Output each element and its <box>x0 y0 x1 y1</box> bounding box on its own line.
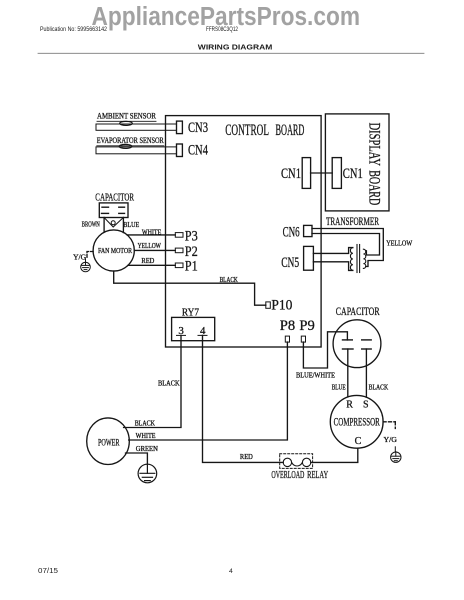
svg-text:CN3: CN3 <box>188 120 208 136</box>
wire brown capacitor to fan motor <box>103 218 105 232</box>
wire CN5 to transformer primary bottom <box>313 262 352 271</box>
svg-text:CN5: CN5 <box>281 255 299 271</box>
svg-text:S: S <box>363 400 369 411</box>
svg-text:CN1: CN1 <box>281 166 301 182</box>
svg-text:TRANSFORMER: TRANSFORMER <box>326 216 379 228</box>
connector CN6 <box>304 225 312 236</box>
svg-text:AMBIENT SENSOR: AMBIENT SENSOR <box>97 112 156 121</box>
relay RY7 <box>172 307 215 341</box>
svg-text:Y/G: Y/G <box>384 435 398 444</box>
svg-text:RED: RED <box>240 454 253 461</box>
svg-text:CN1: CN1 <box>343 166 363 182</box>
control board <box>166 116 322 347</box>
wire white power to P8 <box>129 342 288 440</box>
svg-text:P9: P9 <box>299 318 314 334</box>
compressor <box>330 395 383 448</box>
svg-text:BOARD: BOARD <box>276 122 305 139</box>
svg-text:Publication No: 5995663142: Publication No: 5995663142 <box>40 26 107 33</box>
evaporator sensor <box>96 136 177 154</box>
wire black power to relay pin 3 <box>124 335 181 427</box>
connector CN1 display board <box>332 158 341 189</box>
wire red relay pin 4 to overload relay <box>203 335 284 462</box>
svg-text:EVAPORATOR SENSOR: EVAPORATOR SENSOR <box>97 136 164 145</box>
svg-text:YELLOW: YELLOW <box>138 243 162 250</box>
svg-text:POWER: POWER <box>98 438 120 448</box>
svg-text:BLACK: BLACK <box>220 277 238 284</box>
display board <box>325 114 389 211</box>
wire white fan motor to P3 <box>127 234 175 236</box>
svg-text:RED: RED <box>141 258 154 265</box>
svg-text:07/15: 07/15 <box>38 568 58 575</box>
svg-text:YELLOW: YELLOW <box>386 238 412 247</box>
ground compressor Y/G <box>383 422 401 463</box>
wire CN1 to CN1 <box>311 172 333 174</box>
wire black capacitor to compressor S <box>365 349 367 397</box>
wire green power to ground <box>126 453 148 464</box>
svg-text:P10: P10 <box>271 298 292 314</box>
connector P10 <box>266 302 271 308</box>
wire CN6 to transformer secondary inner <box>312 234 380 256</box>
svg-text:DISPLAY: DISPLAY <box>365 123 382 167</box>
wire compressor C to overload relay <box>311 448 358 462</box>
svg-text:BROWN: BROWN <box>82 222 100 229</box>
header rule <box>38 52 424 54</box>
svg-text:P8: P8 <box>280 318 295 334</box>
svg-text:BLUE/WHITE: BLUE/WHITE <box>296 370 335 379</box>
connector CN5 <box>304 246 314 270</box>
ground power earth <box>138 464 157 483</box>
ambient sensor <box>96 112 177 131</box>
svg-text:FFRS08C3Q12: FFRS08C3Q12 <box>206 26 238 33</box>
svg-text:BLUE: BLUE <box>123 222 139 229</box>
svg-text:CAPACITOR: CAPACITOR <box>336 306 380 318</box>
svg-text:RELAY: RELAY <box>307 469 328 481</box>
svg-text:WHITE: WHITE <box>136 433 156 440</box>
svg-text:C: C <box>355 436 362 447</box>
svg-text:P2: P2 <box>185 244 198 260</box>
connector CN4 <box>177 144 183 157</box>
svg-text:COMPRESSOR: COMPRESSOR <box>334 416 380 428</box>
connector P3 <box>175 233 183 238</box>
svg-text:WIRING DIAGRAM: WIRING DIAGRAM <box>198 42 273 51</box>
wire blue capacitor to fan motor <box>122 218 124 233</box>
wire CN6 to transformer secondary outer <box>312 229 383 267</box>
svg-text:P3: P3 <box>185 228 198 244</box>
svg-text:P1: P1 <box>185 259 198 275</box>
svg-text:CN4: CN4 <box>188 143 208 159</box>
connector P2 <box>175 248 183 253</box>
connector CN1 control board <box>302 158 310 189</box>
svg-text:BLACK: BLACK <box>369 382 389 391</box>
wire yellow fan motor to P2 <box>134 249 175 251</box>
wire CN5 to transformer primary top <box>313 248 352 254</box>
transformer T1 <box>326 216 379 272</box>
connector CN3 <box>177 121 183 134</box>
wire red fan motor to P1 <box>128 264 175 266</box>
wire blue/white P9 to run capacitor <box>303 332 347 368</box>
ground fan motor Y/G <box>73 252 93 272</box>
svg-text:BLUE: BLUE <box>332 382 346 391</box>
svg-text:RY7: RY7 <box>182 307 200 319</box>
overload relay <box>271 454 328 482</box>
svg-text:BLACK: BLACK <box>135 421 155 428</box>
svg-text:WHITE: WHITE <box>142 229 161 236</box>
svg-text:R: R <box>346 400 353 411</box>
svg-text:BOARD: BOARD <box>365 170 382 205</box>
svg-text:4: 4 <box>229 568 233 575</box>
svg-text:Y/G: Y/G <box>73 252 87 261</box>
svg-text:FAN MOTOR: FAN MOTOR <box>98 246 133 255</box>
capacitor fan <box>95 192 134 227</box>
fan motor <box>93 230 134 271</box>
wire black fan motor to P10 <box>114 271 266 305</box>
svg-text:CN6: CN6 <box>283 224 300 240</box>
wire blue capacitor to compressor R <box>347 349 349 397</box>
svg-text:OVERLOAD: OVERLOAD <box>271 469 304 481</box>
capacitor compressor run <box>333 306 381 367</box>
connector P1 <box>175 263 183 268</box>
svg-text:GREEN: GREEN <box>136 446 158 453</box>
svg-text:CAPACITOR: CAPACITOR <box>95 192 134 203</box>
svg-text:CONTROL: CONTROL <box>225 122 269 139</box>
svg-text:BLACK: BLACK <box>158 380 180 387</box>
power supply <box>87 418 130 465</box>
